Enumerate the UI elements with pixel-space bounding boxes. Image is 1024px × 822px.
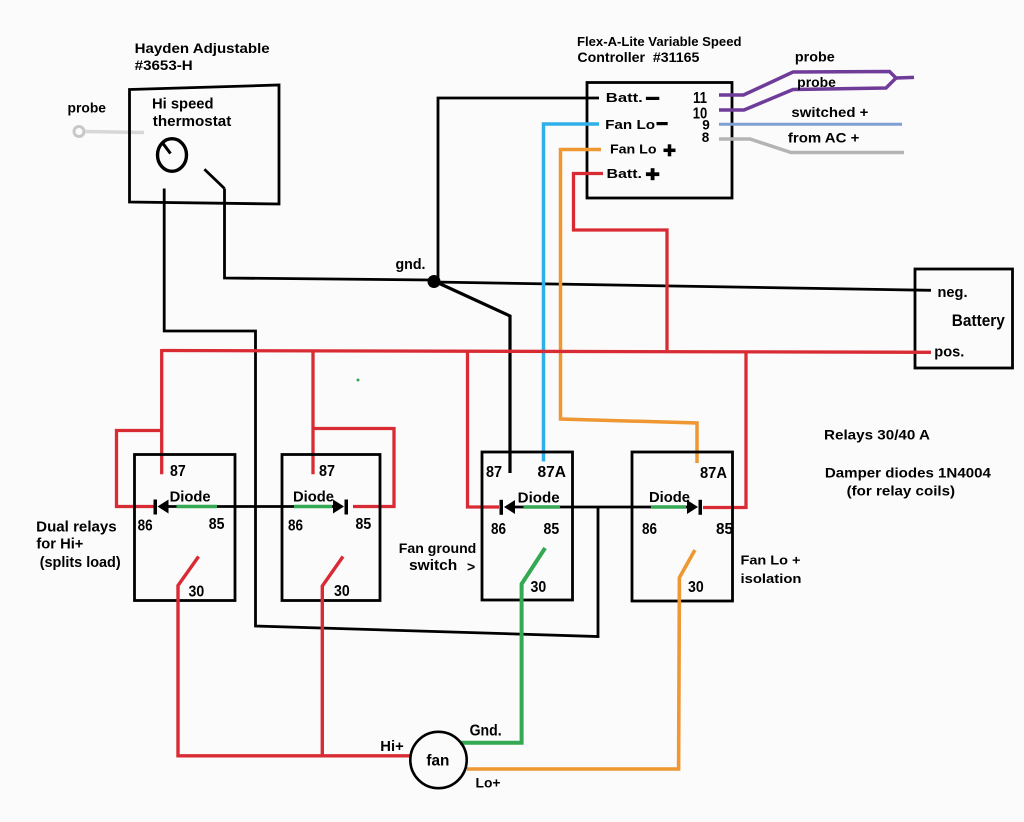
wire: relay1 coil 86 loop (red) <box>117 431 162 507</box>
svg-text:fan: fan <box>426 753 449 770</box>
svg-text:Batt.: Batt. <box>606 91 643 105</box>
svg-text:probe: probe <box>68 100 107 116</box>
svg-text:Hi+: Hi+ <box>380 738 404 755</box>
controller pin label Fan Lo - <box>605 117 668 132</box>
relay K4 box <box>632 452 733 601</box>
node gnd. <box>396 257 441 288</box>
svg-text:Dual relays: Dual relays <box>36 519 117 535</box>
wire: Batt- pin to gnd node (black) <box>438 98 599 279</box>
svg-text:Hi speed: Hi speed <box>152 96 214 112</box>
svg-text:Diode: Diode <box>649 490 690 506</box>
svg-text:Damper diodes 1N4004: Damper diodes 1N4004 <box>825 465 991 480</box>
svg-text:isolation: isolation <box>741 571 802 586</box>
svg-text:neg.: neg. <box>938 284 968 301</box>
label Damper diodes 1N4004 <box>825 465 991 498</box>
wire: pos rail (red) <box>162 351 931 353</box>
svg-text:86: 86 <box>642 521 657 538</box>
fan M1 <box>410 732 466 788</box>
wire: thermostat left pin down, right, down, to relay3/4 diode junction (black) <box>164 189 598 637</box>
svg-text:87A: 87A <box>700 465 727 482</box>
svg-text:from AC +: from AC + <box>788 131 860 146</box>
svg-text:87A: 87A <box>538 464 567 481</box>
diode D4 (relay4, cathode right) <box>687 500 702 515</box>
svg-text:Hayden Adjustable: Hayden Adjustable <box>135 40 270 56</box>
diode D1 green segment <box>177 505 218 509</box>
svg-text:Battery: Battery <box>952 312 1006 330</box>
svg-text:30: 30 <box>531 579 547 596</box>
wire: switched + (blue) from pin 9 <box>719 123 902 126</box>
relay K1 switch blade and 30 wire to fan Hi+ (red) <box>178 557 410 756</box>
svg-text:(for relay coils): (for relay coils) <box>847 484 956 499</box>
diode D1 (relay1, cathode left) <box>154 500 169 515</box>
title Flex-A-Lite Variable Speed Controller #31165 <box>577 34 742 65</box>
svg-text:85: 85 <box>544 521 560 538</box>
controller box U1 <box>587 83 732 199</box>
relay K2 box <box>282 455 380 601</box>
relay K3 box <box>482 452 573 600</box>
battery box BT1 <box>915 269 1013 368</box>
wire: relay2 coil 85 loop (red) <box>313 429 394 507</box>
controller pin label Batt. + <box>607 166 660 181</box>
svg-text:Controller #31165: Controller #31165 <box>577 50 699 65</box>
relay K2 pin labels <box>288 463 372 600</box>
svg-text:Diode: Diode <box>293 489 334 505</box>
relay K1 pin labels <box>138 463 225 600</box>
label Fan ground switch <box>399 541 477 575</box>
probe wire tail (purple) <box>896 76 914 80</box>
controller pin label Batt. - <box>606 91 660 105</box>
svg-text:switch: switch <box>409 558 457 574</box>
svg-text:30: 30 <box>688 579 704 596</box>
wire: Batt+ pin to pos rail (red) <box>574 174 668 351</box>
svg-text:probe: probe <box>795 49 835 64</box>
svg-text:87: 87 <box>170 463 186 480</box>
svg-text:switched +: switched + <box>791 105 868 120</box>
wire: pos rail to relay3 diode (red) <box>468 351 500 507</box>
wire: Fan Lo+ pin to relay4 87A (orange) <box>561 150 698 464</box>
svg-text:Diode: Diode <box>170 489 211 505</box>
svg-text:85: 85 <box>716 521 733 538</box>
diode D2 green segment <box>294 505 332 509</box>
svg-text:87: 87 <box>486 464 502 481</box>
wire: pos rail to relay2 pin 87 (red) <box>311 351 314 475</box>
wire: pos rail to relay4 diode (red) <box>703 352 746 508</box>
relay K3 switch blade and 30 wire to fan Gnd (green) <box>460 548 545 743</box>
probe wire lower (purple) <box>719 78 896 110</box>
svg-text:86: 86 <box>491 521 506 538</box>
svg-text:30: 30 <box>334 583 350 600</box>
wire: Fan Lo- pin to relay3 87A (cyan) <box>544 124 600 462</box>
relay K3 pin labels <box>486 464 566 596</box>
svg-text:thermostat: thermostat <box>153 114 232 130</box>
probe (thermostat sensor, gray) <box>68 100 145 137</box>
svg-text:86: 86 <box>288 518 303 535</box>
svg-text:30: 30 <box>189 583 205 600</box>
svg-text:pos.: pos. <box>934 344 964 361</box>
wire: gnd node diagonal to relay3 pin 87 (black) <box>434 281 510 473</box>
diode D4 green segment <box>651 505 686 509</box>
svg-text:Lo+: Lo+ <box>476 775 501 791</box>
svg-text:Fan ground: Fan ground <box>399 541 477 556</box>
wire: pos rail to relay1 pin 87 (red) <box>160 349 163 474</box>
diode D3 (relay3, cathode left) <box>500 500 516 515</box>
controller pin label Fan Lo + <box>610 143 676 157</box>
svg-text:Batt.: Batt. <box>607 166 643 181</box>
svg-text:85: 85 <box>209 516 225 533</box>
label Fan Lo + isolation <box>741 553 802 586</box>
svg-text:Fan Lo +: Fan Lo + <box>741 553 801 568</box>
svg-text:85: 85 <box>356 516 372 533</box>
wire: gnd node to battery neg (black) <box>434 282 931 290</box>
svg-text:gnd.: gnd. <box>396 257 426 273</box>
svg-text:probe: probe <box>797 75 836 90</box>
relay K4 pin labels <box>642 465 733 596</box>
svg-text:86: 86 <box>138 518 153 535</box>
wire: thermostat switch to gnd node (black) <box>225 189 432 281</box>
diode D2 (relay2, cathode right) <box>333 500 348 515</box>
svg-text:Flex-A-Lite Variable Speed: Flex-A-Lite Variable Speed <box>577 34 742 49</box>
svg-text:Relays 30/40 A: Relays 30/40 A <box>824 428 930 443</box>
svg-text:Gnd.: Gnd. <box>470 723 502 740</box>
thermostat box TH1 (Hi speed thermostat) <box>130 85 280 204</box>
svg-text:8: 8 <box>702 130 710 145</box>
diode D3 green segment <box>524 505 561 509</box>
probe wire upper (purple) <box>719 72 896 96</box>
svg-text:for Hi+: for Hi+ <box>36 536 83 552</box>
svg-text:Diode: Diode <box>518 491 560 507</box>
wire: from AC + (gray) from pin 8 <box>719 139 904 153</box>
thermostat switch contact <box>204 169 224 188</box>
svg-text:(splits load): (splits load) <box>40 555 121 571</box>
svg-text:Fan Lo: Fan Lo <box>610 143 657 157</box>
label Dual relays for Hi+ (splits load) <box>36 519 121 570</box>
svg-text:#3653-H: #3653-H <box>135 57 193 73</box>
stray green dot artifact <box>357 379 360 382</box>
relay K1 box <box>135 455 236 601</box>
thermostat adjustment dial <box>158 139 187 172</box>
svg-text:87: 87 <box>319 463 335 480</box>
wire: relay3 diode line to relay4 diode (black) <box>515 506 687 509</box>
wire: relay1 diode line to relay2 diode (black) <box>165 505 334 508</box>
relay K4 switch blade and 30 wire to fan Lo+ (orange) <box>467 550 695 769</box>
svg-text:Fan Lo: Fan Lo <box>605 117 655 132</box>
svg-text:>: > <box>467 559 475 575</box>
relay K2 switch blade and 30 wire (red) <box>322 557 343 756</box>
title Hayden Adjustable #3653-H <box>135 40 270 73</box>
